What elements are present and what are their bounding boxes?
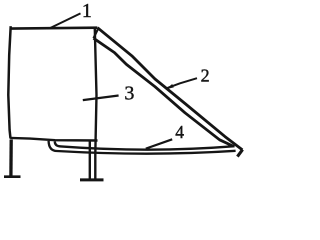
svg-text:1: 1 [82,0,92,22]
tank right edge [95,29,97,179]
svg-text:4: 4 [175,122,184,142]
right leg front stroke [89,141,91,179]
right foot [80,178,104,181]
collector panel bottom end cap [237,150,242,157]
collector panel top end cap [94,29,98,38]
tank top edge [10,26,97,29]
collector panel lower line [94,38,234,146]
leader line to 4 [146,139,172,148]
left leg [9,140,13,177]
tank bottom edge [10,138,97,141]
leader line to 1 [51,13,81,28]
pipe lower line with left bend [49,141,236,154]
leader line to 3 [83,96,119,101]
pipe upper line with left bend [55,142,235,150]
left foot [4,175,21,178]
svg-text:3: 3 [124,82,134,104]
tank left edge [8,26,10,138]
leader line to 2 [167,78,197,88]
svg-text:2: 2 [201,66,210,86]
leader 2 arrowhead wedge [166,84,174,89]
collector panel upper line [98,28,243,150]
